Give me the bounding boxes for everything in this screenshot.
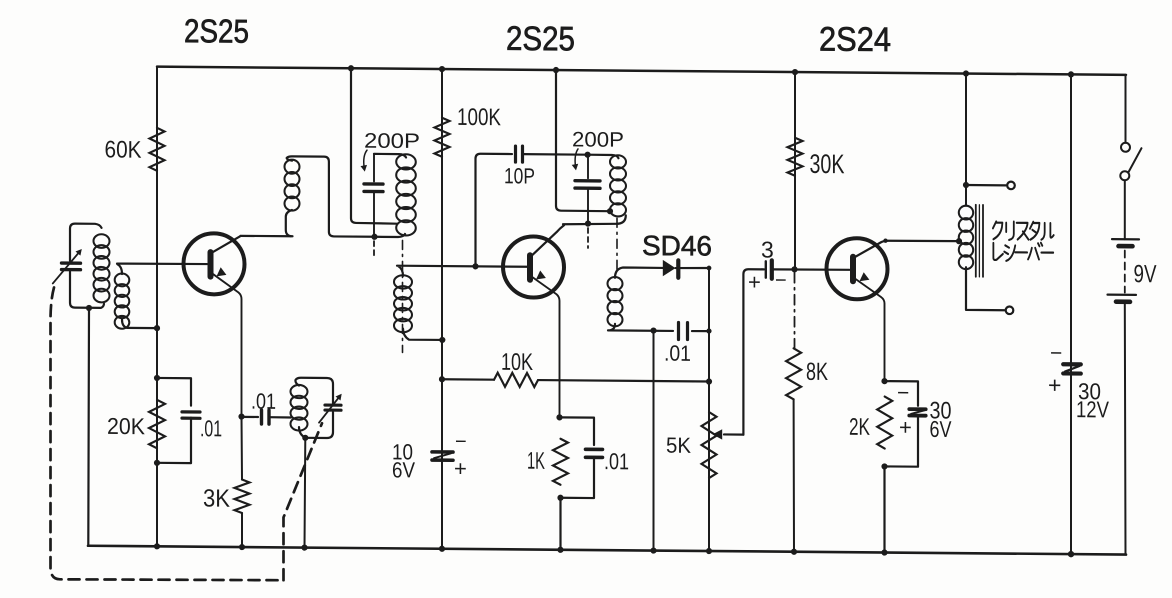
tuning gang linkage (dashed, left)	[51, 287, 284, 581]
label C7 polarity plus	[748, 269, 761, 294]
svg-text:3: 3	[761, 236, 774, 262]
wire: detector output column	[708, 268, 710, 551]
resistor R7 8K	[786, 348, 801, 399]
node: T1 bottom / C1 junction	[371, 234, 377, 240]
wire: 3K to ground	[241, 513, 243, 547]
junction: ground rail at 8K	[791, 549, 797, 555]
node: antenna tank / ground junction	[86, 305, 92, 311]
node: detector filter left	[650, 327, 656, 333]
wire: Q3 emitter to ground	[883, 466, 885, 552]
svg-text:.01: .01	[664, 341, 691, 366]
node: Q1 emitter junction	[238, 413, 244, 419]
svg-text:10P: 10P	[504, 163, 535, 188]
wire: supply to T3	[965, 74, 967, 206]
label R9 value 20K	[107, 413, 146, 439]
wire: rail to switch	[1125, 75, 1127, 143]
label C2 value 10P	[504, 163, 535, 188]
label R8 value 2K	[849, 414, 870, 441]
capacitor C1 200P plates	[364, 184, 383, 192]
variable capacitor VC1 arrow	[53, 249, 82, 284]
switch SW1 lever	[1129, 148, 1142, 172]
junction: ground rail at 3K	[239, 544, 245, 550]
wire: T1 secondary top to Q2 base	[397, 266, 527, 277]
svg-text:−: −	[897, 382, 909, 405]
node: supply rail / C9	[1068, 71, 1074, 77]
svg-text:60K: 60K	[105, 136, 142, 163]
label R10 value 3K	[203, 485, 230, 513]
label C9 polarity minus	[1050, 342, 1062, 365]
label R6 value 30K	[810, 149, 845, 179]
wire: coupling cap line	[762, 269, 850, 270]
wire: antenna tank to ground rail	[87, 308, 90, 546]
terminal: crystal receiver lower	[1006, 306, 1014, 314]
label R1 value 60K	[105, 136, 142, 163]
label D1 part number SD46	[642, 230, 712, 262]
transistor Q3 2S24 body	[827, 238, 888, 300]
wire: 100K column	[441, 69, 443, 549]
wire: 8K to ground	[793, 399, 795, 551]
transistor Q3 base bar	[850, 257, 856, 282]
T2 core axis (dash-dot)	[616, 218, 618, 273]
battery BT1 cell2 short plate	[1116, 299, 1130, 304]
capacitor C4 .01 plates	[679, 322, 688, 339]
wire: 1K bracket bottom	[561, 457, 595, 498]
junction: ground rail at C4	[650, 547, 656, 553]
wire: wiper to coupling cap	[743, 269, 762, 435]
wire: 10K feedback line right	[538, 380, 709, 381]
node: C4 right junction	[706, 328, 711, 333]
wire: T3 bottom lead	[966, 267, 1005, 310]
label C8 polarity plus	[899, 415, 912, 440]
resistor R9 20K	[149, 400, 165, 449]
svg-text:10K: 10K	[501, 349, 533, 376]
label C7 value 3	[761, 236, 774, 262]
wire: C4 right segment	[692, 330, 709, 332]
label C5 polarity plus	[454, 456, 467, 481]
svg-text:9V: 9V	[1134, 260, 1157, 288]
label C10 value .01	[200, 415, 222, 441]
wire: battery to ground rail	[1124, 304, 1127, 555]
wire: supply tap to T1	[351, 68, 397, 223]
wire: 10P to T2 top	[523, 153, 588, 156]
wire: L3 bottom lead	[286, 210, 293, 236]
svg-text:2S25: 2S25	[506, 20, 575, 59]
node: supply rail / T2 tap	[553, 67, 559, 73]
wire: 10K feedback line left	[442, 378, 494, 381]
battery BT1 9V cell1 short plate	[1119, 244, 1133, 249]
label C9 value 12V	[1076, 396, 1110, 422]
wire: antenna tank bottom lead	[70, 272, 104, 308]
svg-text:20K: 20K	[107, 413, 146, 439]
node: C9 ground junction	[1068, 551, 1074, 557]
wire: T3 upper terminal lead	[966, 184, 1006, 187]
tuning gang linkage (dashed, right)	[284, 423, 323, 581]
svg-text:SD46: SD46	[642, 230, 712, 262]
label C8 polarity minus	[897, 382, 909, 405]
wire: tank coil bottom lead	[299, 427, 305, 438]
svg-text:200P: 200P	[572, 128, 624, 151]
node: 20K top bracket	[154, 375, 160, 381]
label C8 value 30	[930, 397, 952, 424]
resistor R4 5K	[702, 412, 717, 478]
label C6 value .01	[604, 448, 629, 474]
capacitor C3 trimmer axis (dash)	[587, 228, 589, 248]
wire: 2K bracket bottom	[885, 415, 919, 466]
transistor Q1 collector lead	[212, 236, 241, 253]
variable capacitor VC2 plates	[325, 405, 341, 410]
wire: 10P line from Q2 base column	[476, 154, 513, 267]
wire: left vertical bus (60K / bias divider column)	[156, 67, 158, 547]
wire: emitter to osc cap	[242, 416, 259, 418]
svg-text:3K: 3K	[203, 485, 230, 513]
label BT1 value 9V	[1134, 260, 1157, 288]
wire: detector filter to ground	[653, 331, 655, 551]
svg-text:−: −	[1050, 342, 1062, 365]
capacitor C6 .01 plates	[586, 449, 603, 457]
capacitor C3 200P trimmer leads	[587, 155, 589, 224]
junction: ground rail at 1K	[557, 547, 563, 553]
svg-text:2S25: 2S25	[184, 12, 249, 50]
svg-text:6V: 6V	[930, 416, 953, 442]
wire: L2 bottom lead to bias node	[122, 320, 157, 329]
svg-text:2S24: 2S24	[819, 20, 891, 59]
switch SW1 contact upper	[1121, 143, 1130, 152]
variable capacitor VC2 arrow	[319, 394, 342, 423]
node: Q2 emitter bottom bracket	[557, 495, 563, 501]
junction: ground rail at C5	[439, 546, 445, 552]
resistor R2 100K	[435, 118, 450, 157]
svg-text:−: −	[775, 270, 787, 292]
node: T2 bottom / C3 junction	[585, 220, 591, 226]
svg-text:8K: 8K	[806, 358, 828, 386]
node: 10K left junction	[439, 376, 445, 382]
transistor Q2 emitter lead with arrow	[532, 270, 560, 417]
node: supply rail / 100K	[439, 66, 445, 72]
wire: Q1 emitter to 3K	[241, 417, 244, 480]
wire: 20K bracket top	[157, 378, 191, 406]
capacitor C7 3uF plates	[766, 260, 772, 278]
wire: L2 top lead to Q1 base	[117, 263, 207, 274]
wire: T1 primary top lead	[374, 154, 406, 158]
transistor Q1 emitter lead with arrow	[212, 267, 242, 416]
T3 core lines	[976, 205, 983, 277]
svg-text:.01: .01	[251, 389, 276, 414]
battery BT1 cell2 long plate	[1108, 294, 1137, 296]
wire: top supply rail	[157, 67, 1126, 75]
label R5 value 1K	[527, 448, 545, 475]
terminal: crystal receiver upper	[1007, 182, 1015, 190]
potentiometer R4 wiper arrow	[713, 429, 744, 440]
node: Q3 base junction	[791, 266, 797, 272]
wire: 20K bracket bottom	[157, 417, 191, 463]
label R4 value 5K	[666, 433, 691, 458]
svg-text:+: +	[899, 415, 912, 440]
wire: tank top edge	[295, 378, 333, 404]
transistor Q2 collector lead	[532, 225, 565, 256]
svg-text:+: +	[1048, 372, 1061, 398]
label C11 value .01	[251, 389, 276, 414]
wire: T1 primary bottom segment	[375, 234, 406, 237]
transistor Q1 2S25 body	[184, 233, 245, 295]
label C5 value 6V	[392, 457, 415, 482]
label R3 value 10K	[501, 349, 533, 376]
inductor L4 tank coil	[291, 385, 308, 431]
wire: T2 secondary bottom lead	[608, 324, 673, 331]
diode D1 SD46	[663, 260, 709, 278]
capacitor C1 200P trimmer leads	[373, 154, 375, 237]
node: supply rail / T3	[963, 70, 969, 76]
battery BT1 internal (dash)	[1124, 251, 1126, 293]
label C3 leader arrow	[572, 149, 579, 171]
label C4 value .01	[664, 341, 691, 366]
resistor R1 60K	[150, 128, 165, 171]
wire: L3 top lead to T1 bottom	[287, 156, 375, 236]
label C5 value 10	[392, 439, 413, 464]
capacitor C8 30uF/6V plates	[909, 409, 925, 416]
resistor R10 3K	[235, 479, 250, 513]
svg-text:12V: 12V	[1076, 396, 1110, 422]
svg-text:5K: 5K	[666, 433, 691, 458]
wire: bottom ground rail	[88, 546, 1126, 555]
inductor L2 antenna coil secondary	[115, 273, 130, 328]
node: T3 top terminal junction	[963, 182, 969, 188]
label C8 value 6V	[930, 416, 953, 442]
label R7 value 8K	[806, 358, 828, 386]
wire: 1K bracket top	[560, 417, 595, 445]
label C9 polarity plus	[1048, 372, 1061, 398]
resistor R8 2K	[877, 396, 892, 448]
wire: 30uF/12V column	[1070, 74, 1072, 554]
svg-text:+: +	[748, 269, 761, 294]
label: crystal receiver line2 (katakana)	[993, 242, 1053, 261]
svg-text:100K: 100K	[457, 104, 501, 131]
node: T2 tap junction	[607, 208, 613, 214]
inductor T1 primary winding	[396, 154, 416, 235]
label C9 value 30	[1078, 378, 1101, 404]
wire: tank right edge bottom	[305, 412, 333, 438]
junction: ground rail at osc tank	[301, 544, 307, 550]
wire: T2 top lead	[588, 155, 619, 159]
junction: ground rail at C9b	[1068, 551, 1074, 557]
label C7 polarity minus	[775, 270, 787, 292]
inductor T3 primary winding	[959, 206, 973, 270]
svg-text:.01: .01	[200, 415, 222, 441]
node: diode output	[707, 266, 712, 271]
wire: supply tap to T2	[556, 70, 609, 211]
svg-text:30K: 30K	[810, 149, 845, 179]
battery BT1 9V cell1 long plate	[1112, 238, 1139, 240]
svg-text:1K: 1K	[527, 448, 545, 475]
resistor R3 10K	[494, 373, 538, 387]
svg-text:−: −	[455, 431, 467, 453]
node: Q3 emitter ground junction	[881, 549, 887, 555]
svg-text:.01: .01	[604, 448, 629, 474]
node: Q3 emitter top bracket	[881, 378, 887, 384]
node: Q2 emitter top bracket	[556, 414, 562, 420]
transistor Q2 2S25 body	[503, 236, 564, 298]
inductor T2 primary winding	[610, 155, 626, 216]
node: collector / T3 junction	[956, 238, 962, 244]
variable capacitor VC1 (antenna tuning) plates	[62, 263, 81, 270]
capacitor C2 10P plates	[516, 146, 523, 162]
node: tank bottom junction	[302, 435, 308, 441]
capacitor C5 10uF/6V plates	[432, 452, 453, 460]
transistor Q3 emitter lead with arrow	[855, 272, 885, 381]
transistor Q1 base bar	[208, 252, 214, 276]
label C5 polarity minus	[455, 431, 467, 453]
node: supply rail / 30K	[792, 69, 798, 75]
wire: Q1 collector horizontal	[241, 235, 292, 238]
label Q2 part number 2S25	[506, 20, 575, 59]
inductor L3 feedback coil	[285, 160, 300, 211]
wire: 2K bracket top	[885, 381, 919, 406]
label C1 value 200P	[364, 130, 420, 153]
wire: switch to battery	[1124, 180, 1126, 239]
inductor L1 antenna coil primary	[94, 234, 110, 302]
wire: osc cap to tank	[269, 416, 291, 418]
resistor R5 1K	[553, 439, 568, 485]
capacitor C10 .01 plates	[182, 412, 200, 418]
wire: T1 secondary bottom lead	[403, 329, 442, 340]
junction: ground rail at 5K	[706, 548, 712, 554]
inductor T2 secondary winding	[608, 277, 623, 326]
wire: base to 8K (dash-dot)	[794, 273, 796, 348]
transistor Q2 base bar	[527, 255, 533, 279]
node: 20K bottom bracket	[154, 460, 160, 466]
capacitor C11 .01 plates	[262, 410, 270, 424]
label: crystal receiver line1 (katakana)	[993, 221, 1054, 240]
resistor R6 30K	[788, 138, 803, 176]
label Q3 part number 2S24	[819, 20, 891, 59]
transistor Q3 collector lead	[855, 240, 888, 257]
node: T1 secondary bottom / 100K junction	[439, 337, 445, 343]
T1 core axis (dash-dot)	[402, 240, 404, 352]
wire: tank to ground	[304, 438, 307, 548]
svg-text:200P: 200P	[364, 130, 420, 153]
node: T2 top / C3 junction	[585, 152, 591, 158]
node: L2 bottom / divider junction	[154, 325, 160, 331]
inductor T1 secondary winding	[394, 275, 412, 332]
capacitor C3 200P plates	[575, 181, 600, 189]
wire: Q2 collector to T2 bottom	[563, 215, 626, 225]
label C1 leader arrow	[361, 150, 368, 172]
label C3 value 200P	[572, 128, 624, 151]
node: Q3 emitter bottom bracket	[881, 463, 887, 469]
node: supply rail / T1 tap	[348, 65, 354, 71]
switch SW1 contact lower	[1120, 171, 1129, 180]
label R2 value 100K	[457, 104, 501, 131]
capacitor C9 30uF/12V plates	[1063, 364, 1081, 373]
svg-text:6V: 6V	[392, 457, 415, 482]
svg-text:+: +	[454, 456, 467, 481]
svg-text:2K: 2K	[849, 414, 870, 441]
capacitor C1 trimmer axis (dash)	[373, 241, 375, 256]
wire: Q3 collector to output transformer	[886, 239, 958, 242]
label Q1 part number 2S25	[184, 12, 249, 50]
node: Q2 base junction	[472, 263, 478, 269]
node: 10K right junction	[706, 378, 712, 384]
junction: ground rail at divider	[154, 543, 160, 549]
wire: 30K/8K column	[794, 72, 796, 269]
wire: Q2 emitter to ground	[559, 498, 561, 550]
wire: antenna tank top lead	[70, 224, 102, 261]
wire: T2 secondary top to diode	[615, 267, 663, 278]
node: Q3 collector bend	[883, 239, 887, 243]
